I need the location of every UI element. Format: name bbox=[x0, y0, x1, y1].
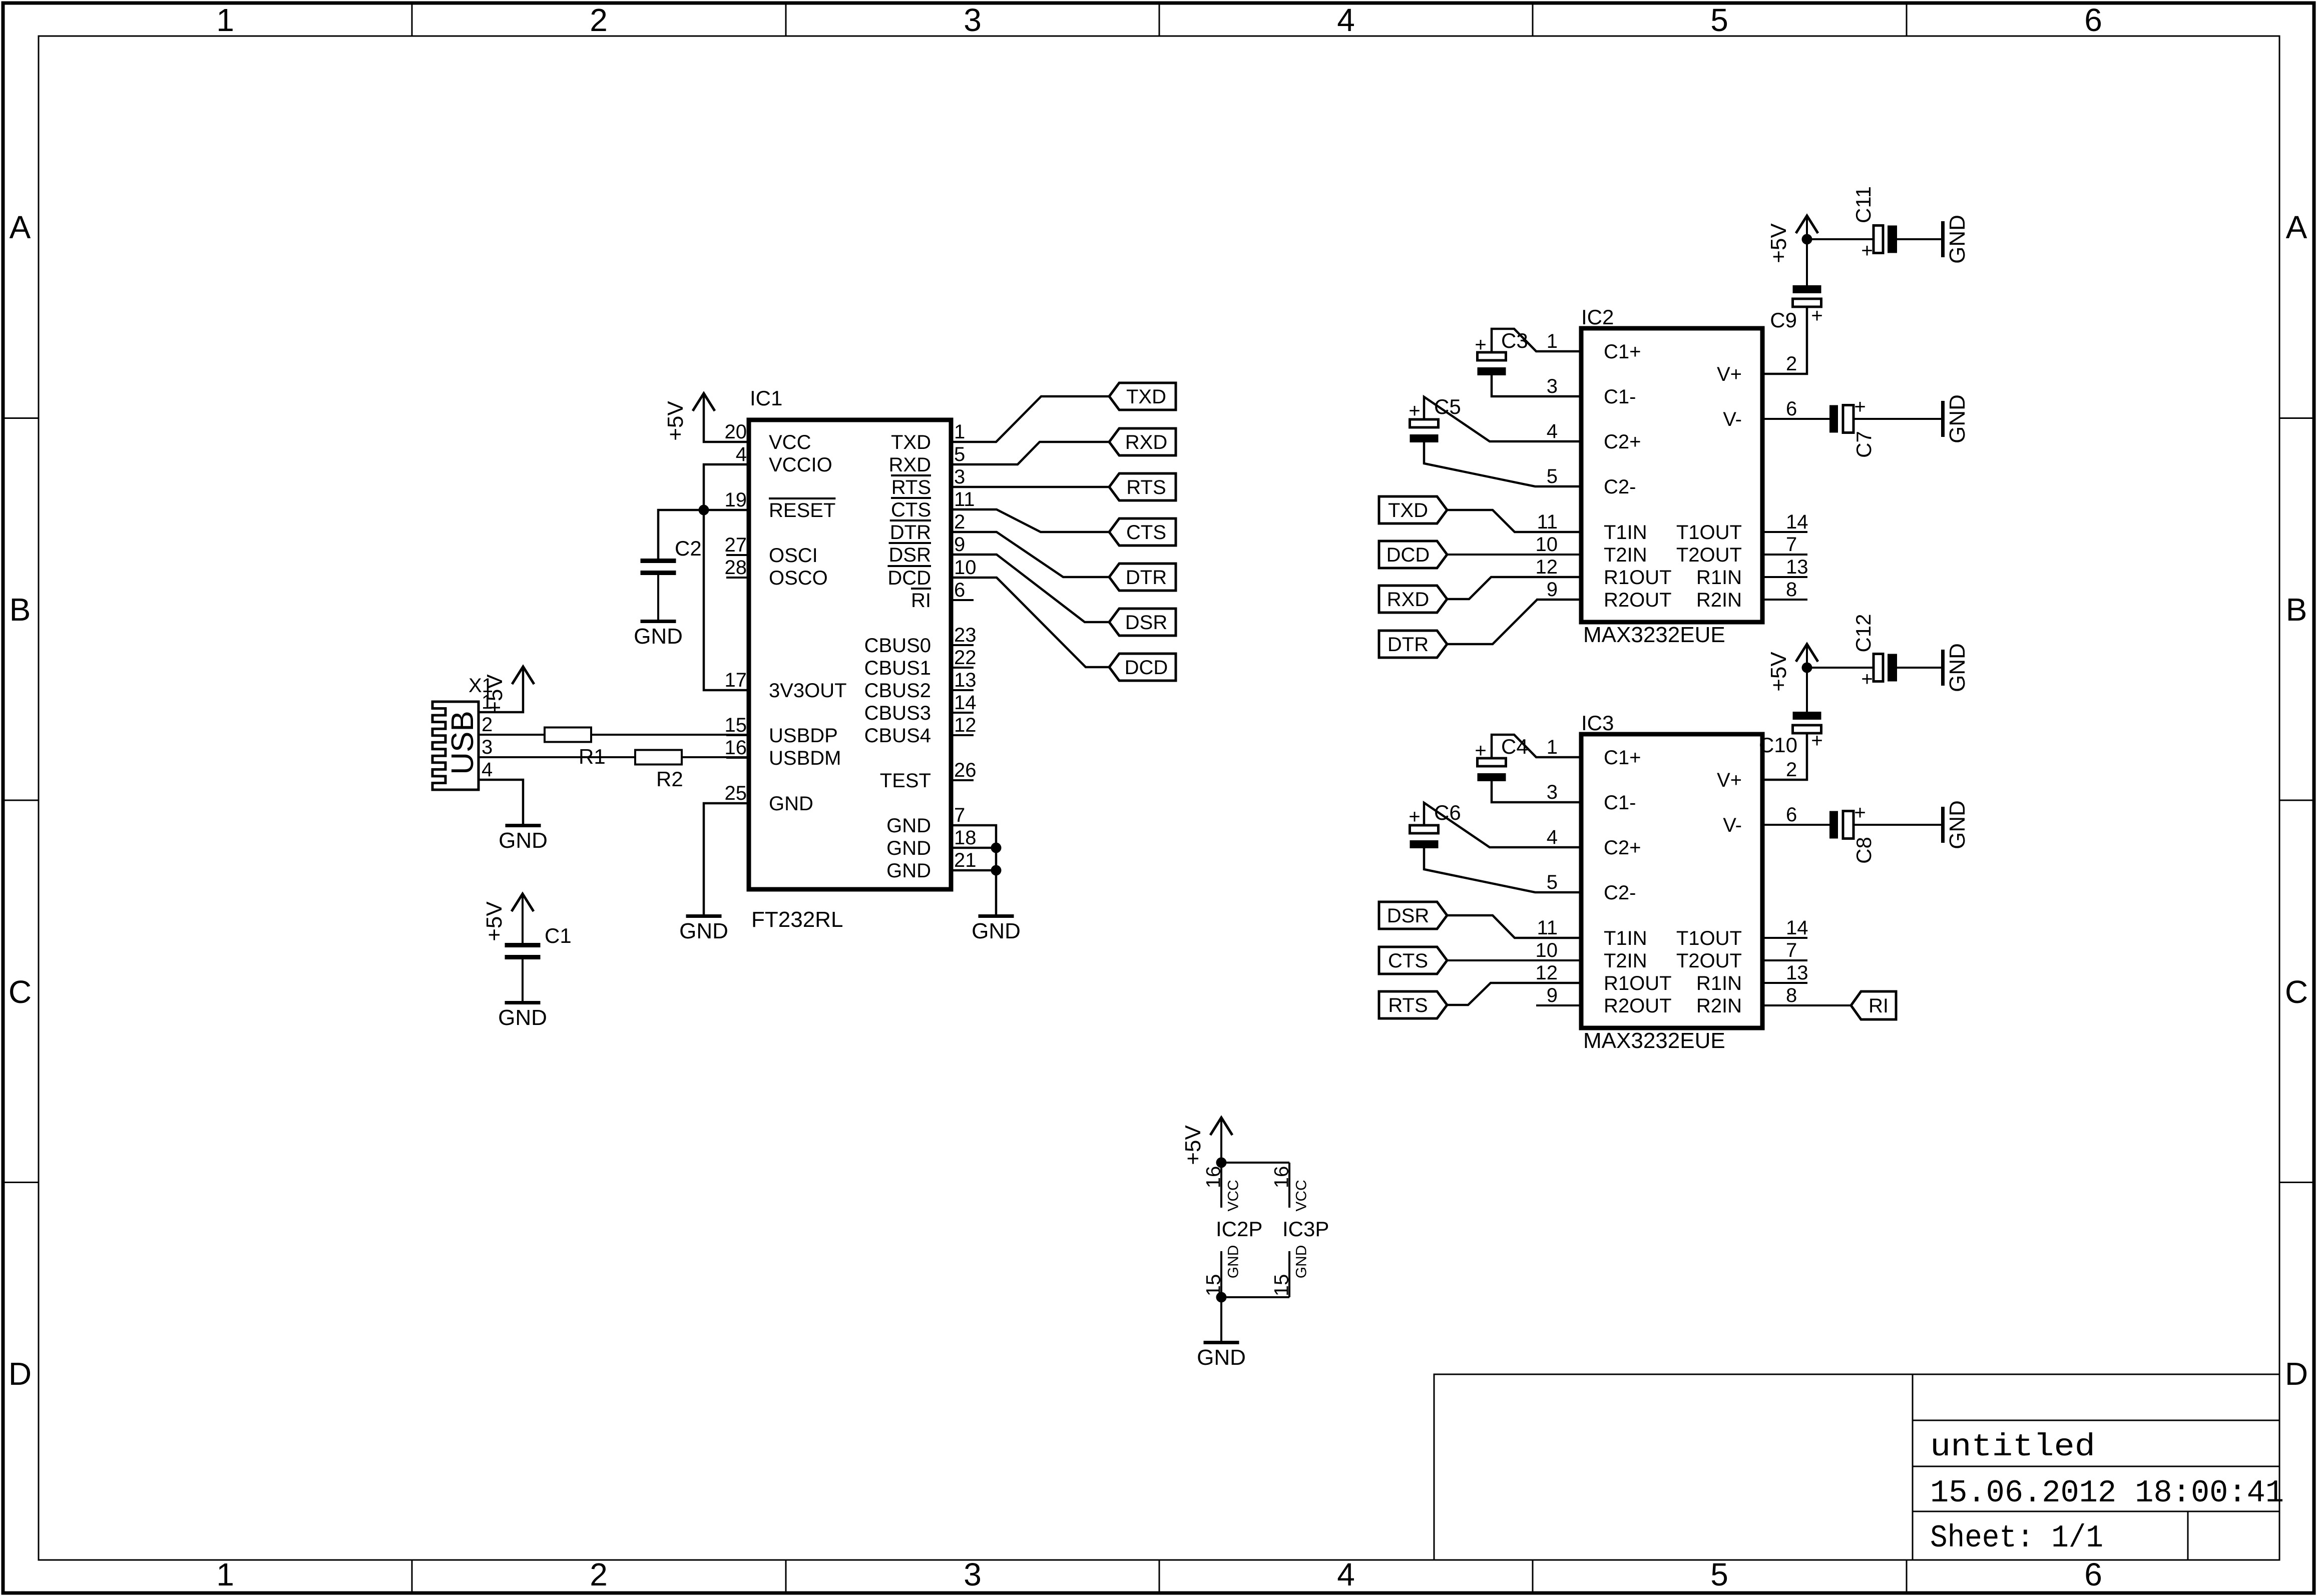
svg-text:IC3P: IC3P bbox=[1282, 1217, 1329, 1241]
svg-text:CBUS0: CBUS0 bbox=[864, 635, 931, 657]
svg-text:CBUS3: CBUS3 bbox=[864, 702, 931, 724]
svg-text:C11: C11 bbox=[1851, 186, 1875, 223]
svg-text:VCCIO: VCCIO bbox=[769, 454, 832, 476]
svg-text:5: 5 bbox=[1547, 465, 1558, 487]
svg-text:+: + bbox=[1409, 400, 1420, 422]
svg-text:IC2: IC2 bbox=[1581, 305, 1614, 329]
svg-text:GND: GND bbox=[1945, 394, 1970, 443]
svg-text:+5V: +5V bbox=[1766, 223, 1791, 263]
svg-text:C10: C10 bbox=[1759, 733, 1797, 757]
svg-text:C: C bbox=[2285, 974, 2308, 1010]
svg-text:RXD: RXD bbox=[889, 454, 931, 476]
svg-text:T1IN: T1IN bbox=[1604, 521, 1647, 544]
svg-text:+: + bbox=[1811, 305, 1822, 327]
svg-text:RXD: RXD bbox=[1387, 589, 1429, 611]
svg-text:C2+: C2+ bbox=[1604, 837, 1641, 859]
svg-text:+5V: +5V bbox=[483, 674, 507, 714]
svg-text:D: D bbox=[2285, 1356, 2308, 1392]
svg-text:IC3: IC3 bbox=[1581, 711, 1614, 735]
svg-text:C1-: C1- bbox=[1604, 386, 1636, 408]
svg-text:CTS: CTS bbox=[1126, 521, 1166, 544]
svg-text:14: 14 bbox=[954, 692, 977, 714]
svg-text:GND: GND bbox=[1945, 215, 1970, 264]
svg-text:R2OUT: R2OUT bbox=[1604, 589, 1672, 611]
svg-text:14: 14 bbox=[1786, 511, 1808, 533]
svg-text:13: 13 bbox=[954, 669, 977, 691]
svg-text:1: 1 bbox=[216, 2, 234, 38]
svg-text:12: 12 bbox=[1536, 556, 1558, 578]
svg-text:FT232RL: FT232RL bbox=[751, 907, 843, 932]
svg-text:GND: GND bbox=[499, 828, 548, 853]
svg-text:TEST: TEST bbox=[880, 770, 931, 792]
svg-text:15: 15 bbox=[725, 714, 747, 736]
svg-text:16: 16 bbox=[1202, 1166, 1224, 1189]
svg-text:12: 12 bbox=[1536, 962, 1558, 984]
svg-text:+: + bbox=[1811, 730, 1822, 752]
svg-text:4: 4 bbox=[1337, 1556, 1355, 1592]
svg-text:C1-: C1- bbox=[1604, 792, 1636, 814]
svg-text:RI: RI bbox=[911, 590, 931, 612]
svg-text:DSR: DSR bbox=[889, 544, 931, 566]
svg-text:T2OUT: T2OUT bbox=[1676, 950, 1742, 972]
svg-text:GND: GND bbox=[1293, 1245, 1310, 1279]
svg-text:VCC: VCC bbox=[1293, 1180, 1310, 1211]
svg-text:V-: V- bbox=[1723, 408, 1742, 430]
svg-text:Sheet: 1/1: Sheet: 1/1 bbox=[1930, 1520, 2103, 1556]
svg-text:+: + bbox=[1861, 668, 1873, 690]
svg-text:20: 20 bbox=[725, 421, 747, 443]
svg-text:4: 4 bbox=[1547, 826, 1558, 848]
svg-text:3: 3 bbox=[954, 466, 965, 488]
svg-text:T2IN: T2IN bbox=[1604, 950, 1647, 972]
svg-text:DCD: DCD bbox=[887, 567, 931, 589]
svg-text:13: 13 bbox=[1786, 962, 1808, 984]
svg-text:10: 10 bbox=[1536, 939, 1558, 961]
svg-text:9: 9 bbox=[1547, 984, 1558, 1006]
svg-text:17: 17 bbox=[725, 669, 747, 691]
svg-text:untitled: untitled bbox=[1930, 1429, 2095, 1465]
svg-text:3: 3 bbox=[1547, 781, 1558, 803]
svg-text:5: 5 bbox=[1547, 871, 1558, 893]
svg-text:CBUS1: CBUS1 bbox=[864, 657, 931, 679]
svg-text:USBDM: USBDM bbox=[769, 747, 841, 769]
svg-text:3: 3 bbox=[964, 1556, 982, 1592]
svg-text:14: 14 bbox=[1786, 917, 1808, 939]
svg-text:D: D bbox=[9, 1356, 32, 1392]
svg-text:C9: C9 bbox=[1770, 308, 1797, 332]
svg-text:+: + bbox=[1854, 802, 1866, 824]
svg-text:GND: GND bbox=[498, 1005, 547, 1030]
svg-text:GND: GND bbox=[769, 793, 813, 815]
svg-text:V+: V+ bbox=[1717, 363, 1742, 385]
svg-text:4: 4 bbox=[482, 759, 493, 781]
svg-text:MAX3232EUE: MAX3232EUE bbox=[1583, 1028, 1725, 1053]
svg-text:12: 12 bbox=[954, 714, 977, 736]
svg-text:B: B bbox=[2286, 592, 2307, 628]
svg-text:R1IN: R1IN bbox=[1696, 972, 1742, 994]
svg-text:11: 11 bbox=[1537, 917, 1558, 939]
svg-text:2: 2 bbox=[1786, 353, 1797, 375]
svg-text:DCD: DCD bbox=[1125, 657, 1168, 679]
svg-text:6: 6 bbox=[2084, 2, 2102, 38]
svg-text:C: C bbox=[9, 974, 32, 1010]
svg-text:+: + bbox=[1861, 240, 1873, 262]
svg-text:3V3OUT: 3V3OUT bbox=[769, 680, 847, 702]
svg-text:5: 5 bbox=[954, 443, 965, 465]
svg-text:9: 9 bbox=[1547, 579, 1558, 601]
svg-text:IC1: IC1 bbox=[750, 386, 782, 410]
svg-text:3: 3 bbox=[964, 2, 982, 38]
svg-text:TXD: TXD bbox=[1388, 499, 1428, 521]
svg-text:R2OUT: R2OUT bbox=[1604, 995, 1672, 1017]
svg-text:TXD: TXD bbox=[1126, 386, 1166, 408]
svg-text:4: 4 bbox=[1547, 420, 1558, 442]
svg-text:MAX3232EUE: MAX3232EUE bbox=[1583, 623, 1725, 647]
svg-text:C2-: C2- bbox=[1604, 882, 1636, 904]
svg-text:DTR: DTR bbox=[1387, 634, 1429, 656]
svg-text:RTS: RTS bbox=[1388, 994, 1428, 1016]
svg-text:2: 2 bbox=[1786, 759, 1797, 781]
svg-text:2: 2 bbox=[482, 714, 493, 736]
svg-text:23: 23 bbox=[954, 624, 977, 646]
svg-text:VCC: VCC bbox=[769, 431, 811, 453]
svg-text:26: 26 bbox=[954, 759, 977, 781]
svg-text:1: 1 bbox=[1547, 330, 1558, 352]
svg-text:16: 16 bbox=[725, 737, 747, 759]
svg-text:C7: C7 bbox=[1852, 431, 1876, 458]
svg-text:7: 7 bbox=[1786, 534, 1797, 556]
svg-text:GND: GND bbox=[1225, 1245, 1242, 1279]
svg-text:A: A bbox=[10, 209, 31, 245]
svg-text:6: 6 bbox=[2084, 1556, 2102, 1592]
svg-text:+5V: +5V bbox=[663, 401, 688, 441]
svg-text:GND: GND bbox=[1945, 643, 1970, 692]
svg-text:5: 5 bbox=[1710, 2, 1728, 38]
svg-text:10: 10 bbox=[1536, 534, 1558, 556]
svg-text:CBUS4: CBUS4 bbox=[864, 725, 931, 747]
svg-text:VCC: VCC bbox=[1225, 1180, 1242, 1211]
svg-text:+5V: +5V bbox=[1766, 652, 1791, 692]
svg-text:C1+: C1+ bbox=[1604, 747, 1641, 769]
svg-text:GND: GND bbox=[886, 815, 931, 837]
svg-text:7: 7 bbox=[1786, 939, 1797, 961]
svg-text:1: 1 bbox=[954, 421, 965, 443]
svg-text:RTS: RTS bbox=[1126, 476, 1166, 498]
svg-text:OSCO: OSCO bbox=[769, 567, 828, 589]
svg-text:6: 6 bbox=[1786, 398, 1797, 420]
svg-text:CTS: CTS bbox=[1388, 950, 1428, 972]
svg-text:4: 4 bbox=[736, 443, 747, 465]
svg-text:+: + bbox=[1475, 334, 1486, 356]
svg-text:DSR: DSR bbox=[1387, 905, 1429, 927]
svg-text:2: 2 bbox=[954, 511, 965, 533]
svg-text:T1OUT: T1OUT bbox=[1676, 521, 1742, 544]
svg-text:CBUS2: CBUS2 bbox=[864, 680, 931, 702]
svg-text:DCD: DCD bbox=[1386, 544, 1430, 566]
svg-text:7: 7 bbox=[954, 804, 965, 826]
svg-text:6: 6 bbox=[954, 579, 965, 601]
svg-text:GND: GND bbox=[886, 837, 931, 859]
svg-text:3: 3 bbox=[1547, 375, 1558, 397]
svg-text:RTS: RTS bbox=[891, 476, 931, 498]
svg-text:16: 16 bbox=[1270, 1166, 1292, 1189]
svg-text:C12: C12 bbox=[1851, 614, 1875, 652]
svg-text:GND: GND bbox=[679, 919, 728, 943]
svg-text:25: 25 bbox=[725, 782, 747, 804]
svg-text:R2IN: R2IN bbox=[1696, 589, 1742, 611]
svg-text:+: + bbox=[1475, 740, 1486, 762]
svg-text:V+: V+ bbox=[1717, 769, 1742, 791]
svg-text:CTS: CTS bbox=[891, 499, 931, 521]
svg-text:C2+: C2+ bbox=[1604, 431, 1641, 453]
svg-text:C1: C1 bbox=[545, 924, 572, 947]
svg-text:11: 11 bbox=[1537, 511, 1558, 533]
svg-text:15: 15 bbox=[1270, 1274, 1292, 1297]
svg-text:18: 18 bbox=[954, 827, 977, 849]
svg-text:R1OUT: R1OUT bbox=[1604, 972, 1672, 994]
svg-text:4: 4 bbox=[1337, 2, 1355, 38]
svg-text:C2-: C2- bbox=[1604, 476, 1636, 498]
svg-text:T2IN: T2IN bbox=[1604, 544, 1647, 566]
svg-text:3: 3 bbox=[482, 736, 493, 758]
svg-text:T1OUT: T1OUT bbox=[1676, 927, 1742, 949]
svg-text:2: 2 bbox=[590, 1556, 608, 1592]
svg-text:15.06.2012 18:00:41: 15.06.2012 18:00:41 bbox=[1930, 1475, 2284, 1511]
svg-text:R2IN: R2IN bbox=[1696, 995, 1742, 1017]
svg-text:R1IN: R1IN bbox=[1696, 567, 1742, 589]
svg-text:10: 10 bbox=[954, 557, 977, 579]
svg-text:C2: C2 bbox=[675, 537, 702, 560]
svg-text:22: 22 bbox=[954, 647, 977, 669]
svg-text:5: 5 bbox=[1710, 1556, 1728, 1592]
svg-text:9: 9 bbox=[954, 534, 965, 556]
svg-text:USBDP: USBDP bbox=[769, 725, 838, 747]
svg-text:DTR: DTR bbox=[1126, 567, 1167, 589]
svg-text:27: 27 bbox=[725, 534, 747, 556]
svg-text:+: + bbox=[1409, 806, 1420, 828]
svg-text:RXD: RXD bbox=[1125, 431, 1167, 453]
svg-text:+5V: +5V bbox=[1181, 1125, 1205, 1165]
svg-text:DSR: DSR bbox=[1125, 612, 1167, 634]
svg-text:GND: GND bbox=[972, 919, 1021, 943]
svg-text:R1OUT: R1OUT bbox=[1604, 567, 1672, 589]
svg-text:GND: GND bbox=[886, 860, 931, 882]
svg-text:T2OUT: T2OUT bbox=[1676, 544, 1742, 566]
svg-text:GND: GND bbox=[1197, 1345, 1246, 1370]
svg-text:USB: USB bbox=[445, 711, 480, 774]
svg-text:28: 28 bbox=[725, 557, 747, 579]
svg-text:6: 6 bbox=[1786, 804, 1797, 826]
svg-text:19: 19 bbox=[725, 489, 747, 511]
svg-text:1: 1 bbox=[1547, 736, 1558, 758]
svg-text:GND: GND bbox=[1945, 800, 1970, 849]
svg-text:21: 21 bbox=[954, 849, 977, 871]
svg-text:13: 13 bbox=[1786, 556, 1808, 578]
svg-text:C4: C4 bbox=[1501, 735, 1528, 758]
svg-text:8: 8 bbox=[1786, 984, 1797, 1006]
svg-text:15: 15 bbox=[1202, 1274, 1224, 1297]
svg-text:OSCI: OSCI bbox=[769, 545, 818, 567]
svg-text:GND: GND bbox=[634, 624, 683, 649]
svg-text:RI: RI bbox=[1869, 995, 1889, 1017]
svg-text:R2: R2 bbox=[656, 767, 683, 791]
svg-text:+5V: +5V bbox=[482, 901, 507, 941]
svg-text:T1IN: T1IN bbox=[1604, 927, 1647, 949]
svg-text:B: B bbox=[10, 592, 31, 628]
svg-text:RESET: RESET bbox=[769, 499, 835, 521]
svg-text:11: 11 bbox=[954, 488, 975, 510]
svg-text:DTR: DTR bbox=[890, 521, 931, 544]
svg-text:C1+: C1+ bbox=[1604, 341, 1641, 363]
svg-text:1: 1 bbox=[216, 1556, 234, 1592]
svg-text:+: + bbox=[1854, 396, 1866, 418]
svg-text:V-: V- bbox=[1723, 814, 1742, 836]
svg-text:2: 2 bbox=[590, 2, 608, 38]
svg-text:8: 8 bbox=[1786, 579, 1797, 601]
svg-text:C3: C3 bbox=[1501, 329, 1528, 352]
svg-text:C8: C8 bbox=[1852, 837, 1876, 864]
svg-text:TXD: TXD bbox=[891, 431, 931, 453]
svg-text:A: A bbox=[2286, 209, 2307, 245]
svg-text:IC2P: IC2P bbox=[1216, 1217, 1262, 1241]
